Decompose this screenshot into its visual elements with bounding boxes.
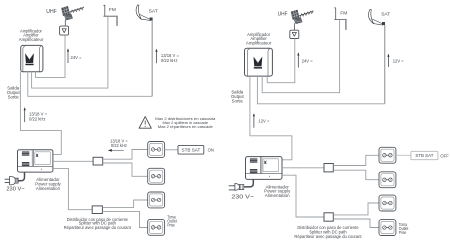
- wire outlet1 to STB (left): [165, 149, 178, 151]
- wire UHF mast (left): [64, 20, 66, 27]
- arrow pointing left under 13/18V label: [111, 149, 124, 151]
- arrow 12V on output line (right): [253, 116, 255, 128]
- wire outlet1 to STB (right, gray): [396, 154, 411, 156]
- svg-text:Répartiteur avec passage du co: Répartiteur avec passage du courant: [294, 234, 362, 239]
- svg-text:230 V~: 230 V~: [6, 187, 24, 193]
- outlet 3 (right): [379, 195, 396, 211]
- mains plug (left): [5, 176, 19, 185]
- outlet 1 (left): [148, 142, 165, 158]
- wire psu to splitter 2 (right): [282, 175, 324, 217]
- svg-text:Alimentation: Alimentation: [36, 186, 61, 191]
- svg-text:24V =: 24V =: [71, 55, 83, 60]
- svg-text:STB SAT: STB SAT: [415, 153, 433, 158]
- svg-text:FM: FM: [340, 11, 347, 17]
- logo amplifier (right): [254, 57, 263, 67]
- svg-text:0/22 kHz: 0/22 kHz: [111, 143, 127, 148]
- svg-text:SAT: SAT: [381, 12, 390, 18]
- antenna UHF right (yagi with reflector grid): [291, 10, 313, 24]
- svg-text:ON: ON: [208, 148, 214, 153]
- logo power supply (left): [36, 153, 39, 156]
- svg-text:OFF: OFF: [440, 154, 449, 159]
- outlet 2 (right): [379, 172, 396, 188]
- power supply box (right): [246, 157, 283, 180]
- wire splitter2 to outlet3: [102, 200, 147, 208]
- splitter 2 (right): [324, 213, 333, 221]
- splitter 2 (left): [92, 206, 102, 214]
- svg-text:24V =: 24V =: [302, 59, 314, 64]
- mains cable (left): [18, 172, 24, 181]
- outlet 3 (left): [148, 192, 165, 208]
- logo amplifier (left): [25, 53, 34, 63]
- svg-text:Sortie: Sortie: [232, 99, 244, 104]
- amplifier box (right): [245, 48, 273, 76]
- wire UHF mast (right): [294, 23, 296, 30]
- splitter 1 (right): [324, 164, 333, 172]
- wire splitter2 to outlet3 (right): [333, 203, 379, 215]
- wire splitter1 to outlet1 (right): [333, 155, 379, 165]
- warning triangle max 2 splitters: [139, 117, 151, 129]
- outlet 4 (right): [379, 220, 396, 236]
- outlet 2 (left): [148, 168, 165, 184]
- wire SAT downlead (left): [28, 72, 152, 97]
- svg-text:Sortie: Sortie: [8, 95, 20, 100]
- outlet 4 (left): [148, 219, 165, 235]
- arrow 24V (left): [67, 51, 69, 63]
- wire psu to splitter 1 (left): [53, 160, 93, 162]
- preamplifier box UHF (right): [290, 30, 299, 38]
- svg-text:12V =: 12V =: [258, 118, 270, 123]
- svg-text:230 V~: 230 V~: [231, 194, 254, 200]
- wire psu to splitter 1 (right): [282, 167, 324, 169]
- wire splitter1 to outlet2: [103, 163, 148, 176]
- antenna UHF left (yagi with reflector grid): [62, 6, 84, 20]
- wire splitter1 to outlet1: [103, 150, 148, 160]
- wire splitter1 to outlet2 (right): [333, 170, 379, 180]
- svg-text:0/22 kHz: 0/22 kHz: [29, 117, 46, 122]
- antenna SAT dish (left): [136, 5, 152, 21]
- wire output to power supply (left): [20, 72, 61, 155]
- arrow 13/18V near SAT mast (left): [155, 51, 157, 63]
- wire FM downlead (right): [262, 19, 339, 92]
- wire splitter2 to outlet4: [102, 211, 147, 227]
- svg-text:STB SAT: STB SAT: [182, 147, 201, 152]
- svg-text:12V =: 12V =: [393, 58, 405, 63]
- wire splitter2 to outlet4 (right): [333, 219, 379, 228]
- logo power supply (right): [264, 160, 267, 163]
- antenna SAT dish (right): [369, 9, 385, 25]
- antenna FM dipole (right): [335, 8, 347, 20]
- wire output to power supply (right): [250, 76, 292, 160]
- outlet 1 (right): [379, 147, 396, 163]
- svg-text:Prise: Prise: [167, 223, 175, 228]
- svg-text:UHF: UHF: [46, 9, 57, 15]
- power supply box (left): [18, 150, 53, 172]
- svg-text:Amplificateur: Amplificateur: [19, 37, 44, 42]
- STB SAT box ON (left): [178, 145, 204, 154]
- preamplifier box UHF (left): [60, 26, 69, 35]
- splitter 1 (left): [93, 157, 103, 165]
- wire UHF downlead (right): [267, 39, 295, 83]
- arrow 13/18V on output line (left): [24, 110, 26, 122]
- svg-text:Amplificateur: Amplificateur: [246, 41, 272, 46]
- arrow 12V near SAT mast (right): [387, 56, 389, 67]
- wire psu to splitter 2 (left): [53, 169, 92, 210]
- mains plug (right): [229, 183, 244, 190]
- STB SAT box OFF (right, gray): [411, 151, 438, 159]
- mains cable (right): [244, 179, 253, 187]
- amplifier box (left): [21, 45, 43, 71]
- svg-text:UHF: UHF: [278, 11, 288, 17]
- arrow 24V (right): [297, 55, 299, 68]
- svg-text:FM: FM: [109, 7, 116, 13]
- svg-text:Alimentation: Alimentation: [265, 193, 290, 198]
- wire FM downlead (left): [32, 16, 108, 88]
- antenna FM dipole (left): [104, 5, 118, 16]
- svg-text:0/22 kHz: 0/22 kHz: [161, 58, 178, 63]
- svg-text:Prise: Prise: [399, 230, 407, 235]
- svg-text:SAT: SAT: [149, 8, 158, 14]
- svg-text:Répartiteur avec passage du co: Répartiteur avec passage du courant: [64, 225, 132, 230]
- wire UHF downlead (left): [36, 35, 66, 77]
- wire SAT downlead (right): [257, 76, 384, 104]
- svg-text:Max 2 répartiteurs en cascade: Max 2 répartiteurs en cascade: [158, 124, 214, 129]
